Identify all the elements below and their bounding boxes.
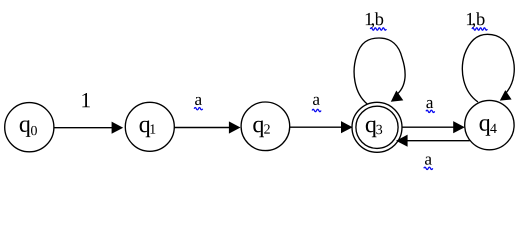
- state q3 label q: [366, 121, 377, 138]
- self-loop arc on q4: [462, 34, 514, 102]
- squiggle under 1,b (q3): [370, 28, 386, 30]
- transition arrow q1 to q2: arrowhead: [229, 121, 241, 133]
- state q0 label q: [20, 120, 31, 137]
- self-loop q4 arrowhead: [500, 90, 512, 101]
- state q2 circle: [241, 102, 290, 151]
- squiggle under 1,b (q4): [472, 28, 487, 30]
- transition arrow q0 to q1: wire: [54, 127, 112, 129]
- transition arrow q1 to q2: wire: [174, 127, 229, 129]
- loop label comma (q3): [371, 23, 374, 28]
- loop label 1 (q3): [366, 13, 373, 25]
- squiggle under a (q3 to q4): [426, 110, 435, 112]
- squiggle under a (q2 to q3): [312, 109, 321, 111]
- transition arrow q2 to q3: arrowhead: [341, 121, 353, 133]
- transition label a (q4 to q3): [425, 157, 432, 165]
- transition arrow q4 to q3: wire: [407, 140, 470, 142]
- squiggle under a (q1 to q2): [194, 108, 202, 110]
- loop label 1 (q4): [467, 13, 474, 25]
- state q0 label subscript 0: [31, 126, 37, 135]
- loop label b (q3): [375, 12, 384, 25]
- transition arrow q0 to q1: arrowhead: [112, 122, 124, 134]
- transition label 1 (q0 to q1): [82, 93, 90, 107]
- state q4 circle: [465, 100, 514, 149]
- transition arrow q3 to q4: arrowhead: [453, 121, 465, 133]
- transition label a (q2 to q3): [313, 97, 320, 105]
- transition label a (q3 to q4): [426, 100, 433, 108]
- state q1 circle: [125, 102, 174, 151]
- self-loop arc on q3: [354, 38, 405, 104]
- loop label b (q4): [476, 12, 485, 25]
- state q3 label subscript 3: [376, 125, 382, 134]
- state q4 label q: [480, 119, 491, 136]
- state q4 label subscript 4: [490, 124, 497, 133]
- state q1 label q: [140, 121, 151, 138]
- transition arrow q4 to q3: arrowhead: [396, 135, 408, 147]
- self-loop q3 arrowhead: [391, 91, 404, 102]
- state q2 label subscript 2: [264, 124, 270, 133]
- transition arrow q3 to q4: wire: [402, 126, 454, 128]
- state q1 label subscript 1: [150, 124, 155, 133]
- transition arrow q2 to q3: wire: [290, 126, 342, 128]
- state q2 label q: [253, 121, 264, 138]
- loop label comma (q4): [472, 23, 475, 28]
- state q3 outer circle (accepting): [352, 102, 402, 152]
- squiggle under a (q4 to q3): [424, 167, 433, 169]
- transition label a (q1 to q2): [195, 97, 202, 105]
- state q3 inner circle: [356, 106, 398, 148]
- state q0 circle: [5, 103, 54, 152]
